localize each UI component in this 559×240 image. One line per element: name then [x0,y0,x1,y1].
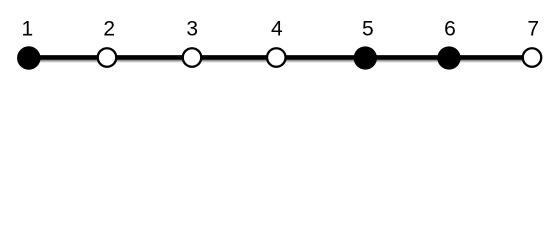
node 1 (filled) [17,46,41,70]
svg-text:3: 3 [186,18,198,41]
node 7 (open) [523,48,542,67]
wire shadow under line [30,60,532,63]
node 5 (filled) [354,46,377,69]
wire main horizontal edge line [29,55,532,60]
node 6 (filled) [437,46,460,69]
node 2 (open) [98,48,117,67]
svg-text:4: 4 [271,18,283,41]
svg-text:6: 6 [444,18,456,41]
svg-text:2: 2 [103,18,115,41]
node 4 (open) [267,48,286,67]
node 3 (open) [183,48,202,67]
svg-text:1: 1 [22,18,34,41]
svg-text:7: 7 [527,18,539,41]
svg-text:5: 5 [362,18,374,41]
